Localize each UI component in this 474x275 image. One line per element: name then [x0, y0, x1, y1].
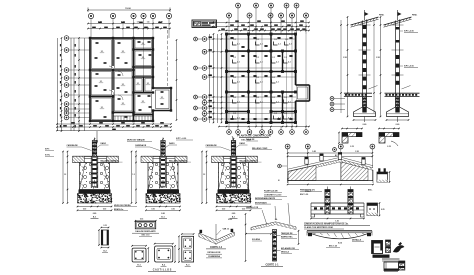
svg-text:CUMBRERA: CUMBRERA [208, 255, 221, 258]
svg-text:0.30: 0.30 [242, 209, 245, 211]
svg-text:RELLENO COMPACT.: RELLENO COMPACT. [240, 159, 259, 162]
P1 top dim chains [87, 21, 171, 30]
svg-text:Z-1: Z-1 [260, 44, 263, 46]
svg-text:1.20: 1.20 [335, 221, 339, 223]
P2 bottom dims and bubbles [218, 126, 310, 135]
svg-text:0.15: 0.15 [387, 146, 391, 148]
svg-text:C-1: C-1 [233, 77, 236, 79]
gable bottom dim [287, 184, 374, 186]
svg-text:1.5: 1.5 [137, 22, 140, 24]
svg-text:C-1: C-1 [233, 57, 236, 59]
svg-text:1.2: 1.2 [203, 174, 205, 176]
svg-text:DADO: DADO [101, 142, 107, 145]
gable posts [305, 153, 365, 165]
eave bottom box [384, 262, 399, 272]
svg-text:Z-1: Z-1 [237, 102, 240, 104]
svg-text:0.30: 0.30 [171, 209, 174, 211]
level markers left [330, 97, 345, 112]
eave teja bird glyph [393, 242, 405, 253]
gable texts [300, 190, 373, 197]
svg-text:ESC 1:20: ESC 1:20 [300, 194, 308, 196]
P1 top grid bubbles [88, 13, 171, 38]
svg-text:MURO DE TABIQUE: MURO DE TABIQUE [127, 139, 146, 142]
svg-text:DADO: DADO [169, 142, 175, 145]
svg-text:15.00: 15.00 [125, 8, 131, 10]
footing detail F1 [62, 138, 122, 219]
svg-text:0.60: 0.60 [363, 124, 367, 126]
svg-text:N.P.T.+0.00: N.P.T.+0.00 [404, 66, 414, 68]
svg-text:0.60: 0.60 [396, 124, 400, 126]
svg-text:C-1: C-1 [256, 39, 259, 41]
P2 outer walls [227, 34, 296, 123]
svg-text:DALA DE: DALA DE [246, 138, 255, 141]
svg-text:Z-1: Z-1 [237, 62, 240, 64]
svg-text:0.15: 0.15 [103, 225, 106, 227]
svg-text:Z-1: Z-1 [278, 44, 281, 46]
svg-text:C-1: C-1 [285, 39, 288, 41]
NPT labels far left [45, 149, 54, 157]
svg-text:0.80: 0.80 [161, 213, 165, 215]
svg-text:0.30: 0.30 [83, 209, 86, 211]
svg-text:C-1: C-1 [272, 57, 275, 59]
svg-text:CIMENTACION DE MAMPOSTERIA DE: CIMENTACION DE MAMPOSTERIA DE 3a. [304, 222, 349, 225]
footing detail F2 [131, 138, 191, 219]
svg-text:PLANTILLA DE: PLANTILLA DE [264, 190, 278, 193]
P2 junction nodes [225, 33, 297, 124]
svg-text:C-1: C-1 [272, 97, 275, 99]
eave small bars [386, 240, 391, 253]
svg-text:APLANADO DE: APLANADO DE [281, 247, 296, 250]
gable support wedges [288, 162, 373, 183]
corte 1-1 roof slab [251, 203, 296, 230]
gable left marks [278, 164, 287, 182]
svg-text:ENTORTADO: ENTORTADO [255, 201, 267, 204]
svg-text:0.30: 0.30 [222, 209, 225, 211]
svg-text:BRAZA 3a.: BRAZA 3a. [114, 208, 124, 211]
svg-text:TABIQUE DE: TABIQUE DE [281, 232, 293, 235]
section right labels [379, 15, 418, 68]
svg-text:Z-1: Z-1 [237, 82, 240, 84]
P1 left dim chains [58, 37, 85, 132]
P2 top grid bubbles upper row [236, 3, 299, 34]
svg-text:RELLENO COMPACT.: RELLENO COMPACT. [169, 159, 188, 162]
svg-text:DETALLE: DETALLE [352, 238, 362, 241]
svg-text:BARRO REC.: BARRO REC. [281, 236, 293, 239]
svg-text:CORTE 1-1: CORTE 1-1 [265, 263, 279, 266]
CASTILLOS caption [148, 269, 176, 272]
svg-text:PEND.: PEND. [379, 15, 385, 17]
P1 left grid bubbles [64, 36, 133, 120]
svg-text:CLASE CON MORTERO CEM.: CLASE CON MORTERO CEM. [304, 226, 334, 229]
small column section left [98, 225, 109, 253]
svg-text:0.80: 0.80 [93, 213, 97, 215]
floor plan P1 top dims [87, 8, 171, 13]
svg-text:PLANTA DE CIMENTACION: PLANTA DE CIMENTACION [237, 134, 271, 138]
svg-text:2.50: 2.50 [376, 57, 380, 59]
svg-text:C-1: C-1 [256, 77, 259, 79]
eave right block [399, 261, 405, 270]
svg-text:N-15: N-15 [338, 242, 342, 244]
svg-text:Z-1: Z-1 [276, 82, 279, 84]
svg-text:C-1: C-1 [272, 77, 275, 79]
svg-text:DADO: DADO [240, 142, 246, 145]
svg-text:ESC 1:10: ESC 1:10 [142, 235, 150, 237]
footing detail F3 [201, 138, 261, 219]
svg-text:Z-1: Z-1 [260, 102, 263, 104]
svg-text:ESC 1:20: ESC 1:20 [329, 246, 337, 248]
P1 interior grid line [143, 38, 145, 77]
lower annotation texts [114, 190, 287, 211]
P2 left grid bubbles [194, 36, 296, 121]
P1 right protrusion room [153, 30, 171, 111]
P1 outer walls [89, 38, 154, 121]
svg-text:0.30: 0.30 [151, 209, 154, 211]
svg-text:N-20: N-20 [228, 219, 232, 221]
svg-text:RELLENO COMPACT.: RELLENO COMPACT. [101, 159, 120, 162]
svg-text:Z-1: Z-1 [237, 118, 240, 120]
svg-text:VAR. #3: VAR. #3 [223, 227, 230, 230]
svg-text:C-1: C-1 [233, 97, 236, 99]
wall section S1 [340, 10, 378, 126]
svg-text:Z-1: Z-1 [276, 102, 279, 104]
svg-text:CADENA DE: CADENA DE [206, 144, 218, 147]
svg-text:VIGA T.: VIGA T. [305, 190, 312, 193]
svg-text:ESC.: ESC. [368, 190, 373, 192]
svg-text:SOLERA: SOLERA [252, 238, 261, 241]
svg-text:C-1: C-1 [284, 113, 287, 115]
detail label bubble [333, 148, 337, 152]
svg-text:C-1: C-1 [233, 39, 236, 41]
texts above footings [96, 131, 272, 150]
P1 room labels [95, 41, 165, 118]
gable top dims [287, 150, 373, 157]
svg-text:Z-1: Z-1 [237, 44, 240, 46]
svg-text:Z-1: Z-1 [260, 62, 263, 64]
svg-text:PEND.: PEND. [412, 15, 418, 17]
corte 1-1 labels [245, 232, 299, 254]
corte 1-1 left dim chain [245, 214, 247, 261]
svg-text:CADENA DE: CADENA DE [67, 144, 79, 147]
P1 bottom dims [56, 122, 172, 131]
P1 junction column blocks [89, 37, 172, 122]
svg-text:2.50: 2.50 [343, 57, 347, 59]
corner detail D1 [338, 128, 363, 148]
P2 top grid bubbles lower row [227, 13, 309, 34]
text band CIMENTACION [304, 222, 370, 229]
eave detail box A [372, 241, 383, 254]
svg-text:C-1: C-1 [274, 39, 277, 41]
svg-text:3.45: 3.45 [312, 150, 316, 153]
svg-text:0.25: 0.25 [381, 209, 385, 211]
P1 stairs band bottom [113, 116, 153, 121]
svg-text:3.30: 3.30 [355, 151, 359, 153]
svg-text:C-1: C-1 [256, 97, 259, 99]
castillo K-1 section [131, 245, 149, 266]
eave dark bar left [373, 255, 390, 258]
gable bubbles [285, 144, 375, 181]
gable roof slabs [288, 157, 373, 174]
svg-text:Z-1: Z-1 [276, 62, 279, 64]
svg-text:MEZCLA: MEZCLA [281, 251, 290, 254]
castillo K-3 tall section [178, 233, 194, 266]
svg-text:Z-1: Z-1 [260, 82, 263, 84]
P1 right dim chain [176, 39, 178, 121]
svg-text:IMPERMEABILIZANTE: IMPERMEABILIZANTE [255, 197, 276, 200]
P2 top dim chains [212, 20, 310, 31]
svg-text:C-1: C-1 [284, 97, 287, 99]
P2 right protrusion [296, 85, 310, 101]
svg-text:2%: 2% [275, 219, 278, 221]
svg-text:C-1: C-1 [284, 57, 287, 59]
svg-text:C-1: C-1 [274, 113, 277, 115]
corner detail D2 [378, 128, 400, 148]
dala de desplante section [132, 219, 159, 237]
corte 1-1 top texts [246, 197, 282, 209]
svg-text:MURO DE PIEDRA: MURO DE PIEDRA [114, 204, 131, 207]
svg-text:Z-1: Z-1 [288, 62, 291, 64]
small wall section right of beam [367, 202, 385, 216]
P1 room inner outlines [92, 40, 152, 120]
beam detail [310, 187, 365, 223]
svg-text:0.15: 0.15 [350, 146, 354, 148]
P2 title [232, 134, 271, 143]
svg-text:0.15: 0.15 [140, 219, 143, 221]
castillo K-2 section [154, 243, 176, 266]
svg-text:Z-1: Z-1 [288, 102, 291, 104]
beam detail top text [305, 190, 312, 193]
wall section S2 [373, 10, 419, 126]
cumbrera V detail [199, 219, 234, 258]
svg-text:DETALLE DE: DETALLE DE [208, 251, 222, 254]
corte 1-1 title [261, 263, 283, 266]
svg-text:C A S T I L L O S: C A S T I L L O S [153, 269, 172, 272]
svg-text:1.2: 1.2 [64, 174, 66, 176]
P1 internal walls [90, 38, 153, 121]
svg-text:Z-1: Z-1 [289, 44, 292, 46]
svg-text:1.2: 1.2 [132, 174, 134, 176]
svg-text:LADRILLO DE: LADRILLO DE [246, 206, 259, 209]
svg-text:CADENA DE: CADENA DE [135, 144, 147, 147]
legend scale box [192, 20, 217, 28]
svg-text:DALA DE DESPLANTE: DALA DE DESPLANTE [135, 230, 156, 233]
P2 internal walls [227, 34, 296, 123]
small beam section right of gable [377, 168, 390, 182]
svg-text:C-1: C-1 [233, 113, 236, 115]
P2 vertical grid lines crossing [229, 34, 306, 126]
corte 1-1 wall [273, 230, 277, 262]
P2 left dim chains [210, 33, 223, 123]
svg-text:CORTE 2-2: CORTE 2-2 [210, 247, 223, 249]
P2 cell rebar marks [230, 37, 292, 120]
arch detail [298, 230, 372, 247]
P1 door marks [109, 66, 123, 100]
svg-text:0.80: 0.80 [232, 213, 236, 215]
svg-text:C-1: C-1 [256, 57, 259, 59]
svg-text:0.30: 0.30 [103, 209, 106, 211]
eave lines [382, 259, 400, 261]
